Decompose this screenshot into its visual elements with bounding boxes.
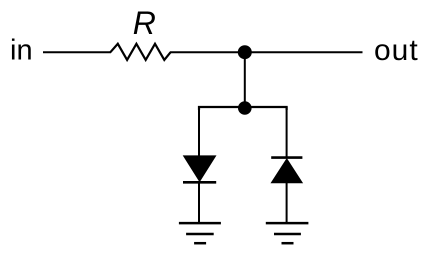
- ground (right): [266, 223, 309, 243]
- wire right branch down to diode D2: [286, 107, 288, 158]
- svg-text:in: in: [10, 35, 33, 67]
- diode D2 (cathode up) triangle: [271, 159, 302, 183]
- wire horizontal branch bar: [199, 107, 287, 110]
- wire from in to resistor R: [43, 51, 111, 53]
- node junction B (lower): [238, 101, 252, 115]
- wire diode D1 to ground: [198, 183, 200, 223]
- wire from resistor to out: [170, 51, 363, 53]
- wire diode D2 to ground: [286, 183, 288, 223]
- wire left branch down to diode D1: [198, 107, 200, 157]
- svg-text:R: R: [133, 5, 156, 41]
- ground (left): [179, 223, 221, 243]
- node junction A (top): [238, 45, 252, 59]
- wire node A down to node B: [244, 52, 246, 107]
- diode D2 cathode bar (top): [271, 156, 302, 159]
- diode D1 cathode bar: [183, 181, 216, 184]
- svg-text:out: out: [374, 34, 419, 67]
- diode D1 (cathode down) triangle: [184, 156, 216, 181]
- resistor R: [110, 44, 170, 60]
